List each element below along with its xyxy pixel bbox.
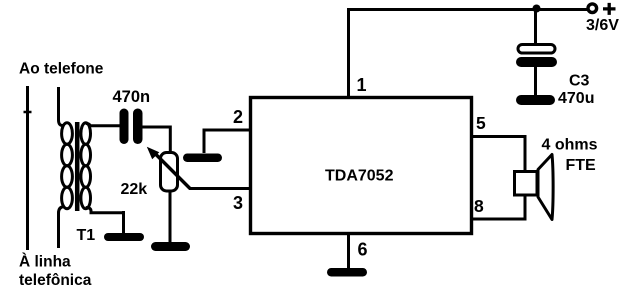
speaker FTE cone	[538, 155, 553, 220]
ground (T1 secondary)	[104, 233, 144, 241]
svg-text:470n: 470n	[113, 88, 151, 106]
wire telephone line left conductor	[26, 86, 29, 250]
wire junction to C3	[534, 9, 537, 44]
ground (C3)	[516, 95, 555, 105]
svg-text:1: 1	[357, 75, 367, 95]
supply terminal circle	[588, 4, 597, 13]
wire C3 to ground	[534, 67, 537, 95]
speaker FTE coil	[515, 172, 538, 196]
transformer T1 secondary winding	[81, 123, 91, 209]
svg-text:Ao telefone: Ao telefone	[19, 61, 104, 78]
potentiometer wiper arrow	[154, 153, 190, 189]
wire pin 1 to supply rail	[347, 10, 350, 98]
svg-text:6: 6	[358, 240, 368, 260]
IC U1 TDA7052 body	[251, 98, 472, 234]
svg-text:À linha: À linha	[19, 254, 71, 271]
svg-text:3: 3	[233, 193, 243, 213]
svg-text:2: 2	[233, 107, 243, 127]
wire potentiometer bottom to ground	[169, 191, 172, 242]
wire pin 5 to speaker	[472, 137, 525, 172]
capacitor 470n plate left	[120, 109, 129, 145]
node junction dot C3	[533, 5, 541, 13]
svg-text:4 ohms: 4 ohms	[542, 137, 598, 154]
wire pin 6 to ground	[347, 234, 350, 268]
transformer T1 core	[75, 122, 80, 211]
svg-text:3/6V: 3/6V	[586, 17, 619, 34]
svg-text:22k: 22k	[121, 181, 148, 198]
wire pin 3 to wiper	[189, 187, 250, 190]
potentiometer 22k body	[161, 153, 178, 192]
ground (pin 6)	[327, 268, 367, 277]
wire supply rail	[347, 8, 587, 11]
wire T1 primary top lead	[59, 87, 64, 126]
svg-text:5: 5	[476, 113, 486, 133]
ground (potentiometer)	[151, 242, 190, 251]
wire pin 2 to ground	[204, 129, 250, 154]
svg-text:470u: 470u	[558, 90, 594, 107]
wire T1 secondary top to C 470n	[86, 124, 120, 127]
svg-text:TDA7052: TDA7052	[325, 168, 394, 185]
svg-text:8: 8	[474, 196, 484, 216]
capacitor C3 plate negative	[516, 57, 557, 67]
svg-text:C3: C3	[569, 73, 590, 90]
svg-text:telefônica: telefônica	[19, 272, 92, 289]
ground (pin 2)	[183, 154, 222, 163]
wire T1 secondary bottom to ground	[86, 208, 124, 234]
supply polarity +	[603, 3, 616, 15]
svg-text:T1: T1	[77, 227, 96, 244]
capacitor C3 plate positive	[518, 45, 555, 54]
wire T1 primary bottom lead	[59, 207, 65, 249]
transformer T1 primary winding	[62, 123, 73, 209]
capacitor 470n plate right	[133, 109, 143, 145]
wire C 470n to potentiometer top	[142, 126, 170, 153]
svg-text:FTE: FTE	[566, 157, 597, 174]
wire tick mark on left conductor	[24, 111, 32, 114]
wire pin 8 to speaker	[472, 195, 525, 219]
